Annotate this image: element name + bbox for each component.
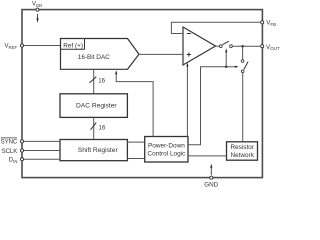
bus wire DAC Register to 16-Bit DAC [93, 69, 95, 93]
terminal DIN [9, 157, 24, 163]
terminal V_OUT [261, 44, 280, 51]
svg-text:GND: GND [204, 181, 218, 187]
terminal V_FB [261, 20, 276, 27]
wire SYNC input [22, 140, 60, 142]
svg-text:16: 16 [98, 78, 105, 85]
16-Bit DAC block U-DAC [61, 39, 140, 70]
wire feedback V_FB to op-amp - [171, 22, 260, 33]
wire switch control from Power-Down [188, 67, 235, 145]
op-amp U1 [183, 27, 216, 65]
switch S1 (output switch) [219, 41, 232, 47]
arrow control to op-amp [186, 63, 188, 67]
svg-text:DIN: DIN [9, 157, 18, 163]
svg-text:16-Bit DAC: 16-Bit DAC [78, 54, 110, 61]
switch S2 (resistor network switch) [241, 60, 248, 73]
arrow GND supply [210, 164, 212, 175]
svg-text:Control Logic: Control Logic [147, 150, 186, 157]
svg-text:Ref (+): Ref (+) [63, 43, 83, 50]
bus width slash 16 (upper) [90, 77, 106, 85]
terminal V_DD [32, 1, 42, 11]
arrow control to S1 [225, 48, 227, 52]
svg-text:VREF: VREF [5, 44, 18, 51]
wire V_REF input [22, 45, 61, 47]
DAC Register [60, 94, 127, 118]
svg-text:Network: Network [230, 152, 254, 159]
wire DAC output to op-amp + [139, 53, 183, 55]
terminal SCLK [2, 149, 24, 155]
Shift Register [60, 140, 127, 161]
bus width slash 16 (lower) [91, 123, 106, 132]
node junction at V_OUT rail [241, 45, 244, 48]
svg-text:16: 16 [99, 125, 106, 132]
svg-text:Resistor: Resistor [230, 144, 254, 151]
svg-text:Power-Down: Power-Down [148, 143, 185, 150]
wire switch S1 to V_OUT [233, 45, 261, 47]
wire junction to switch S2 [242, 46, 244, 59]
svg-text:VDD: VDD [32, 1, 42, 8]
arrow control to DAC [115, 70, 117, 74]
svg-text:Shift Register: Shift Register [78, 147, 119, 154]
wire Shift Register to Power-Down (upper) [127, 141, 145, 143]
device boundary [22, 10, 262, 178]
wire Shift Register to Power-Down (lower) [127, 158, 145, 160]
bus wire Shift Register to DAC Register [93, 118, 95, 140]
svg-text:SCLK: SCLK [2, 149, 18, 155]
wire DAC power-down control [116, 74, 153, 137]
Resistor Network [227, 142, 258, 160]
svg-text:SYNC: SYNC [1, 140, 18, 146]
Power-Down Control Logic [145, 137, 188, 163]
terminal V_REF [5, 44, 24, 51]
wire Power-Down to Resistor Network [188, 155, 227, 157]
terminal SYNC [1, 138, 24, 146]
wire DIN input [22, 158, 60, 160]
wire SCLK input [22, 150, 60, 152]
terminal GND [204, 176, 218, 188]
arrow V_DD supply [36, 14, 38, 23]
arrow control to S2 [235, 66, 239, 68]
wire op-amp power-down control [186, 66, 188, 136]
node control branch [225, 65, 228, 68]
wire op-amp output stub [216, 45, 220, 47]
Ref (+) sub-block [61, 39, 85, 50]
svg-text:DAC Register: DAC Register [76, 102, 117, 109]
wire switch S2 to Resistor Network [242, 73, 244, 142]
wire control branch up to S1 [225, 52, 227, 66]
